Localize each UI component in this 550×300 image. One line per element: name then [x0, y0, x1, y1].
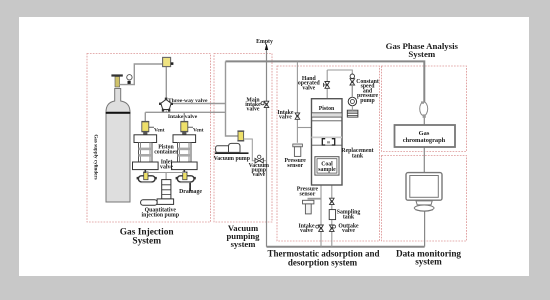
svg-text:Three-way valve: Three-way valve: [168, 98, 208, 104]
svg-text:Piston: Piston: [319, 106, 335, 112]
svg-text:valve: valve: [252, 172, 265, 178]
svg-text:sample: sample: [318, 167, 336, 173]
svg-text:tank: tank: [343, 214, 355, 220]
svg-text:Vacuum pump: Vacuum pump: [214, 156, 250, 162]
svg-text:injection pump: injection pump: [142, 213, 180, 219]
svg-text:Drainage: Drainage: [179, 189, 202, 195]
svg-text:sensor: sensor: [300, 191, 316, 197]
svg-text:system: system: [231, 239, 257, 249]
svg-text:sensor: sensor: [287, 163, 303, 169]
svg-text:Empty: Empty: [256, 39, 273, 45]
svg-text:chromatograph: chromatograph: [403, 137, 446, 144]
svg-text:pump: pump: [360, 98, 375, 104]
svg-text:valve: valve: [160, 165, 173, 171]
svg-text:valve: valve: [247, 107, 260, 113]
svg-text:Vent: Vent: [154, 128, 165, 134]
svg-text:Vent: Vent: [193, 128, 204, 134]
svg-text:tank: tank: [352, 153, 364, 159]
svg-text:Gas supply cylinders: Gas supply cylinders: [93, 134, 99, 179]
svg-text:system: system: [415, 256, 442, 266]
svg-text:valve: valve: [302, 85, 315, 91]
svg-text:System: System: [408, 49, 436, 59]
svg-text:System: System: [132, 236, 161, 246]
svg-text:valve: valve: [342, 228, 355, 234]
svg-text:valve: valve: [279, 115, 292, 121]
svg-text:desorption system: desorption system: [288, 258, 358, 268]
svg-text:Intake valve: Intake valve: [168, 114, 198, 120]
svg-text:container: container: [154, 149, 178, 155]
svg-text:valve: valve: [300, 228, 313, 234]
